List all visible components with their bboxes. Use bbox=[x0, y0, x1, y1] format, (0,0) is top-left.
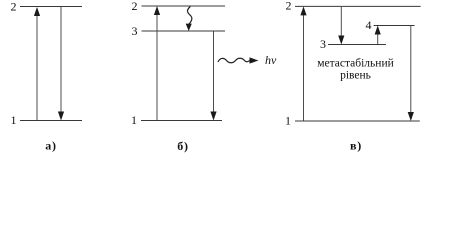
svg-text:1: 1 bbox=[131, 113, 137, 127]
svg-text:2: 2 bbox=[11, 0, 17, 14]
svg-text:2: 2 bbox=[132, 0, 138, 13]
svg-text:а): а) bbox=[45, 139, 57, 153]
svg-text:3: 3 bbox=[132, 24, 138, 38]
svg-text:3: 3 bbox=[320, 37, 326, 51]
svg-text:б): б) bbox=[177, 139, 189, 153]
svg-text:hν: hν bbox=[265, 53, 277, 67]
svg-text:метастабільний: метастабільний bbox=[317, 58, 394, 70]
svg-text:в): в) bbox=[350, 139, 362, 153]
svg-text:рівень: рівень bbox=[340, 70, 371, 82]
svg-text:4: 4 bbox=[366, 18, 372, 32]
svg-text:1: 1 bbox=[11, 113, 17, 127]
svg-text:2: 2 bbox=[286, 0, 292, 13]
svg-text:1: 1 bbox=[285, 114, 291, 128]
